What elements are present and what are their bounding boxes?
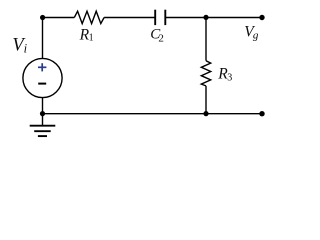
wire top-left to R1	[43, 17, 75, 19]
wire top-left node down to source	[42, 18, 44, 59]
bottom wire node C to node B to right terminal	[43, 113, 263, 115]
resistor R3	[201, 61, 210, 86]
node top-left junction dot	[40, 15, 45, 20]
wire source bottom to node C	[42, 98, 44, 114]
voltage source Vi circle	[23, 58, 62, 97]
wire node A down to R3	[205, 18, 207, 61]
node A junction dot	[203, 15, 208, 20]
resistor R1	[74, 11, 104, 23]
svg-text:i: i	[24, 41, 28, 55]
svg-text:2: 2	[158, 32, 164, 44]
wire R1 to C2	[104, 17, 154, 19]
svg-text:g: g	[253, 30, 259, 42]
capacitor C2	[155, 10, 165, 25]
node Vg terminal dot	[259, 15, 264, 20]
voltage source minus polarity mark	[38, 83, 46, 85]
node C junction dot	[40, 111, 45, 116]
wire node A to Vg terminal	[206, 17, 262, 19]
wire C2 to node A	[166, 17, 206, 19]
svg-text:3: 3	[227, 72, 232, 83]
svg-text:1: 1	[89, 32, 94, 43]
node B junction dot	[203, 111, 208, 116]
wire R3 down to node B	[205, 86, 207, 114]
bottom right terminal dot	[259, 111, 264, 116]
ground	[30, 114, 56, 137]
voltage source plus polarity mark	[38, 63, 46, 71]
